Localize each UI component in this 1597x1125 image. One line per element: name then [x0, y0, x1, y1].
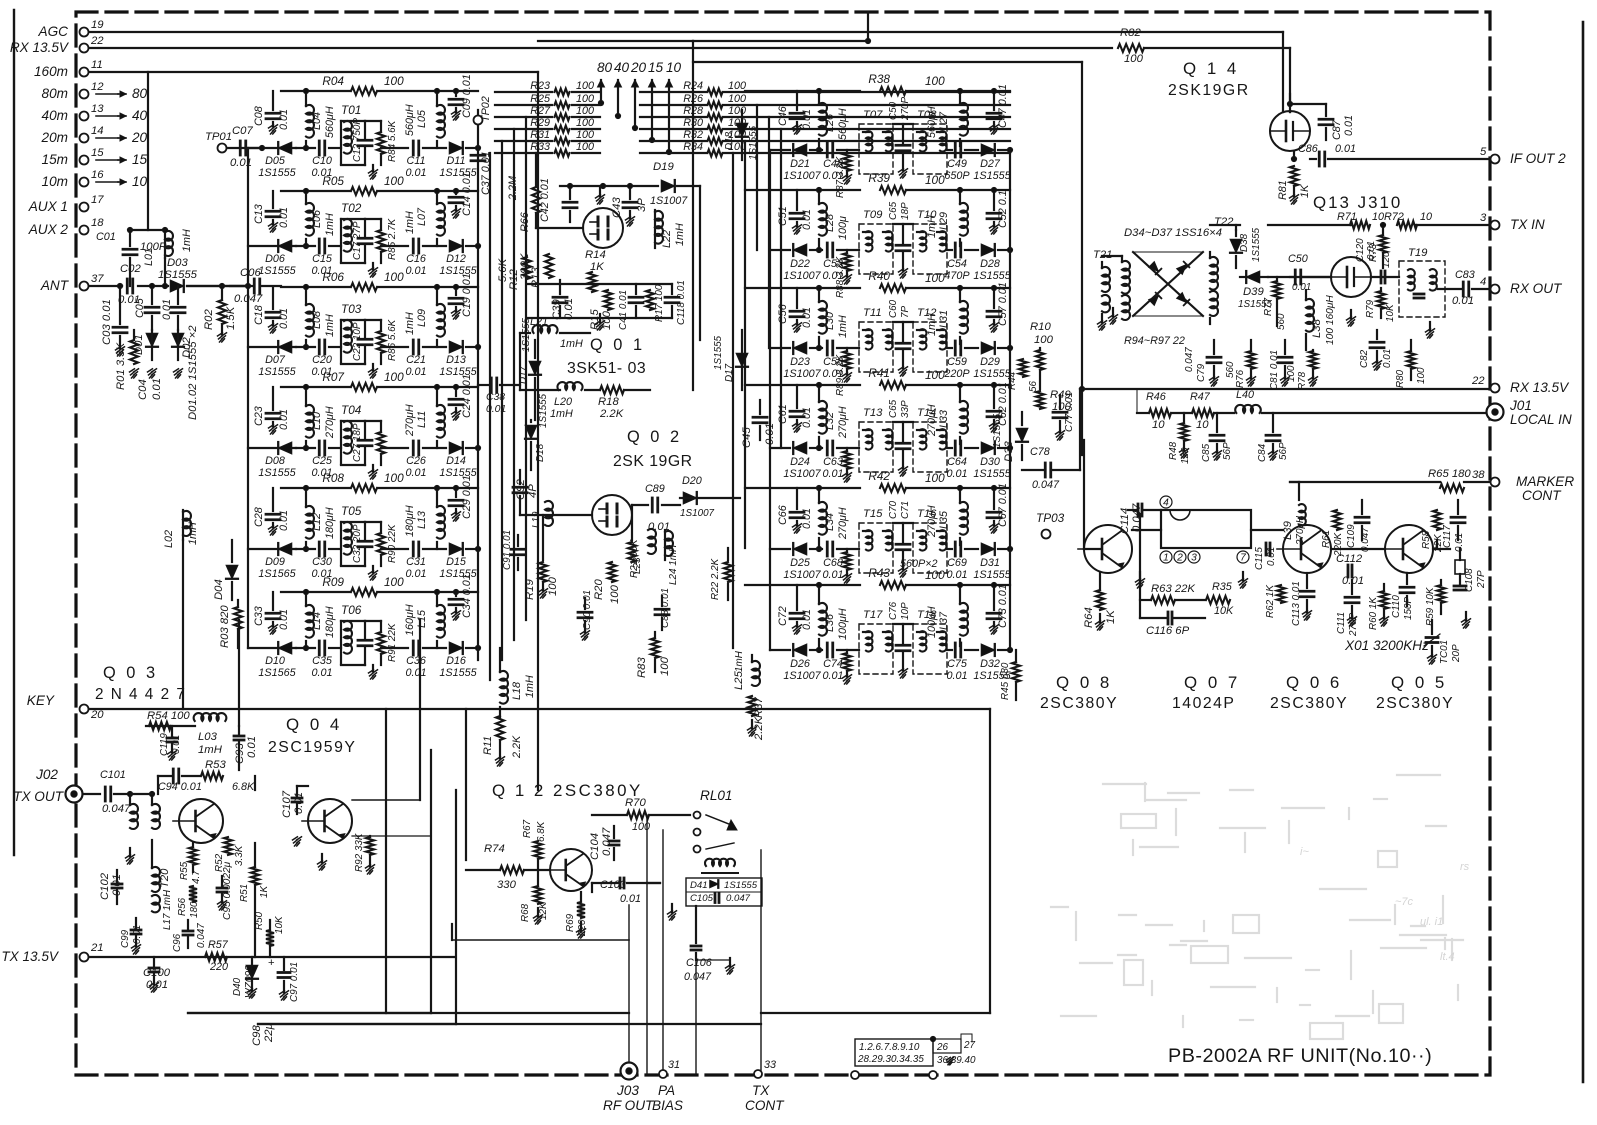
svg-text:D09: D09: [265, 556, 285, 568]
svg-text:4: 4: [1163, 498, 1169, 509]
svg-text:1S1555: 1S1555: [748, 125, 759, 160]
svg-text:C57 0.01: C57 0.01: [997, 282, 1009, 326]
svg-text:C77 0.01: C77 0.01: [1064, 392, 1075, 432]
svg-text:D16: D16: [446, 655, 466, 667]
svg-text:C114: C114: [1119, 508, 1131, 534]
svg-text:R83: R83: [636, 657, 648, 678]
svg-text:100 160μH: 100 160μH: [1325, 295, 1336, 345]
svg-text:C08: C08: [253, 106, 265, 126]
svg-text:180μH: 180μH: [324, 606, 336, 638]
svg-text:1mH: 1mH: [198, 744, 223, 756]
svg-text:C20: C20: [312, 354, 332, 366]
svg-text:R63 22K: R63 22K: [1151, 583, 1195, 595]
svg-text:rs: rs: [1460, 861, 1470, 873]
svg-text:D24: D24: [790, 456, 810, 468]
svg-text:C94 0.01: C94 0.01: [158, 781, 202, 793]
svg-text:C81 0.01: C81 0.01: [1269, 350, 1280, 390]
svg-text:R79: R79: [1365, 299, 1376, 318]
svg-text:0.01: 0.01: [486, 404, 506, 415]
svg-text:21: 21: [90, 942, 104, 954]
svg-text:1S1007: 1S1007: [783, 569, 821, 581]
svg-text:1S1555: 1S1555: [521, 317, 532, 352]
svg-text:TC01: TC01: [1439, 640, 1450, 664]
svg-text:R68: R68: [520, 903, 531, 922]
svg-text:R74: R74: [484, 843, 505, 855]
svg-text:100: 100: [925, 74, 945, 88]
svg-text:120: 120: [1381, 251, 1392, 268]
svg-text:0.01: 0.01: [822, 569, 843, 581]
svg-text:D12: D12: [446, 253, 466, 265]
svg-text:Q 0 8: Q 0 8: [1056, 673, 1112, 692]
svg-text:R08: R08: [322, 471, 344, 485]
svg-text:D20: D20: [682, 475, 702, 487]
svg-text:10K: 10K: [1214, 605, 1234, 617]
svg-text:C01: C01: [96, 231, 116, 243]
svg-text:C108: C108: [1464, 568, 1475, 592]
svg-text:R94~R97 22: R94~R97 22: [1124, 335, 1185, 347]
svg-text:AUX 2: AUX 2: [28, 222, 69, 237]
svg-text:0.01: 0.01: [1266, 547, 1277, 566]
svg-text:R86 5.6K: R86 5.6K: [387, 319, 398, 361]
svg-text:33: 33: [764, 1059, 776, 1071]
svg-text:L09: L09: [416, 309, 428, 327]
svg-text:C61: C61: [777, 404, 789, 424]
svg-text:Q 0 5: Q 0 5: [1391, 673, 1447, 692]
svg-text:R40: R40: [868, 269, 890, 283]
svg-text:T22: T22: [1214, 216, 1234, 228]
svg-text:R76: R76: [1235, 369, 1246, 388]
svg-text:100: 100: [384, 471, 404, 485]
svg-text:R82: R82: [1120, 27, 1141, 39]
svg-text:C116 6P: C116 6P: [1146, 625, 1190, 637]
svg-text:180: 180: [189, 901, 200, 918]
svg-text:R66: R66: [519, 212, 531, 232]
svg-text:1S1007: 1S1007: [783, 468, 821, 480]
svg-text:0.01: 0.01: [1292, 282, 1311, 293]
svg-text:T11: T11: [863, 307, 882, 319]
svg-text:0.01: 0.01: [801, 508, 813, 529]
svg-text:1S1555: 1S1555: [973, 468, 1011, 480]
svg-text:C34 0.01: C34 0.01: [461, 574, 473, 618]
svg-text:180μH: 180μH: [324, 507, 336, 539]
svg-text:100: 100: [576, 117, 594, 129]
svg-text:0.01: 0.01: [278, 409, 290, 430]
svg-text:0.01: 0.01: [278, 609, 290, 630]
svg-text:R85 2.7K: R85 2.7K: [387, 218, 398, 260]
svg-text:C120: C120: [1355, 238, 1366, 262]
svg-text:C84: C84: [1257, 443, 1268, 462]
svg-text:R27: R27: [530, 105, 551, 117]
svg-text:2SC380Y: 2SC380Y: [1270, 695, 1348, 712]
svg-text:C33: C33: [253, 606, 265, 626]
svg-text:RL01: RL01: [700, 788, 733, 803]
svg-text:RX OUT: RX OUT: [1510, 281, 1563, 296]
svg-text:1S1007: 1S1007: [680, 508, 715, 519]
svg-text:0.01: 0.01: [230, 157, 252, 169]
svg-text:0.01: 0.01: [405, 667, 426, 679]
svg-text:C35: C35: [312, 655, 333, 667]
svg-text:2SC380Y: 2SC380Y: [1376, 695, 1454, 712]
svg-text:C43: C43: [611, 197, 623, 218]
svg-text:6.8K: 6.8K: [536, 821, 547, 842]
svg-text:1mH: 1mH: [324, 314, 336, 337]
svg-text:D15: D15: [446, 556, 467, 568]
svg-text:L37: L37: [938, 611, 950, 630]
svg-text:C66: C66: [777, 505, 789, 525]
svg-text:T19: T19: [1408, 247, 1428, 259]
svg-text:C75: C75: [947, 658, 968, 670]
svg-text:R10: R10: [1030, 321, 1051, 333]
svg-text:2 N 4 4 2 7: 2 N 4 4 2 7: [95, 686, 186, 703]
svg-text:560P×2: 560P×2: [900, 558, 938, 570]
svg-text:R20: R20: [593, 579, 605, 600]
svg-text:D11: D11: [446, 155, 465, 167]
svg-text:D29: D29: [980, 356, 1000, 368]
svg-text:100: 100: [609, 584, 621, 604]
svg-text:R04: R04: [322, 74, 344, 88]
svg-text:R91 22K: R91 22K: [387, 623, 398, 662]
svg-text:4P: 4P: [527, 484, 539, 498]
svg-text:R59 10K: R59 10K: [1425, 587, 1436, 626]
svg-text:C64: C64: [947, 456, 967, 468]
svg-text:1S1555: 1S1555: [973, 270, 1011, 282]
svg-text:Q 0 6: Q 0 6: [1286, 673, 1342, 692]
svg-text:L13: L13: [416, 511, 428, 529]
svg-text:2SK 19GR: 2SK 19GR: [613, 453, 693, 470]
svg-text:D18: D18: [535, 443, 546, 462]
svg-text:T20: T20: [159, 868, 171, 888]
svg-text:C12 750P: C12 750P: [352, 118, 363, 162]
svg-text:1mH: 1mH: [837, 315, 849, 338]
svg-text:100: 100: [1416, 367, 1427, 384]
svg-text:ANT: ANT: [40, 278, 70, 293]
svg-text:0.047: 0.047: [102, 803, 131, 815]
svg-text:CONT: CONT: [1522, 488, 1562, 503]
svg-text:AGC: AGC: [38, 24, 69, 39]
svg-text:R72: R72: [1384, 211, 1404, 223]
svg-text:27P: 27P: [1476, 570, 1487, 589]
svg-text:WZ090: WZ090: [244, 965, 255, 998]
svg-text:R51: R51: [239, 884, 250, 902]
svg-text:C97 0.01: C97 0.01: [289, 962, 300, 1002]
svg-text:T13: T13: [863, 407, 883, 419]
svg-text:11: 11: [91, 59, 103, 71]
svg-text:L15: L15: [416, 609, 428, 628]
svg-text:C50: C50: [1288, 253, 1308, 265]
svg-text:100: 100: [576, 141, 594, 153]
svg-text:1: 1: [1163, 553, 1169, 564]
svg-text:R90 22K: R90 22K: [387, 524, 398, 563]
svg-text:3: 3: [1480, 212, 1487, 224]
svg-text:10: 10: [666, 60, 682, 75]
svg-text:650P: 650P: [944, 170, 970, 182]
svg-text:C103: C103: [600, 879, 626, 891]
svg-text:0.01: 0.01: [1382, 349, 1393, 368]
svg-text:C06: C06: [240, 267, 261, 279]
svg-text:1.5K: 1.5K: [225, 306, 237, 330]
svg-text:0.01: 0.01: [405, 568, 426, 580]
svg-text:X01 3200KHz: X01 3200KHz: [1344, 638, 1429, 653]
svg-text:20: 20: [90, 709, 104, 721]
svg-text:D07: D07: [265, 354, 286, 366]
svg-text:R45 680: R45 680: [1000, 662, 1011, 700]
svg-text:C13: C13: [253, 204, 265, 224]
svg-text:C110: C110: [1391, 595, 1402, 618]
svg-text:10K: 10K: [1385, 304, 1396, 322]
svg-text:560: 560: [1225, 361, 1236, 378]
svg-text:0.01: 0.01: [161, 299, 173, 320]
svg-text:C59: C59: [947, 356, 967, 368]
svg-text:100μH: 100μH: [926, 606, 938, 638]
svg-text:1mH: 1mH: [187, 522, 199, 545]
svg-text:1mH: 1mH: [734, 650, 745, 672]
svg-text:R48: R48: [1168, 441, 1179, 460]
svg-text:R67: R67: [522, 819, 533, 838]
svg-text:1K: 1K: [1299, 184, 1311, 198]
svg-text:100: 100: [576, 80, 594, 92]
svg-text:C24 0.01: C24 0.01: [461, 374, 473, 418]
svg-text:C67 0.01: C67 0.01: [997, 483, 1009, 527]
svg-text:160μH: 160μH: [404, 604, 416, 636]
svg-text:1S1555: 1S1555: [724, 880, 758, 891]
svg-text:80m: 80m: [42, 86, 68, 101]
svg-text:D30: D30: [980, 456, 1000, 468]
svg-text:R71: R71: [1337, 211, 1357, 223]
svg-text:2SC380Y: 2SC380Y: [1040, 695, 1118, 712]
svg-text:C17 27P: C17 27P: [352, 221, 363, 260]
svg-text:270μH: 270μH: [404, 404, 416, 437]
svg-text:2.2K: 2.2K: [599, 408, 624, 420]
svg-text:R57: R57: [208, 939, 229, 951]
svg-text:1S1565: 1S1565: [258, 667, 296, 679]
svg-text:0.01: 0.01: [1335, 143, 1356, 155]
svg-text:L25: L25: [733, 670, 745, 690]
svg-text:17: 17: [91, 194, 104, 206]
svg-text:80: 80: [597, 60, 613, 75]
svg-text:L34: L34: [824, 513, 836, 531]
svg-text:100: 100: [925, 173, 945, 187]
svg-text:D32: D32: [980, 658, 1000, 670]
svg-text:1mH: 1mH: [560, 338, 583, 350]
svg-text:100: 100: [925, 368, 945, 382]
svg-text:L08: L08: [311, 311, 323, 329]
svg-text:C91 0.01: C91 0.01: [502, 530, 513, 570]
svg-text:C96: C96: [172, 933, 183, 952]
svg-text:100: 100: [547, 576, 559, 596]
svg-text:~7c: ~7c: [1395, 896, 1414, 908]
svg-text:560μH: 560μH: [324, 106, 336, 138]
svg-text:C109: C109: [1346, 524, 1357, 548]
svg-text:L36: L36: [824, 614, 836, 632]
svg-text:1S1555: 1S1555: [439, 667, 477, 679]
svg-text:270μH: 270μH: [926, 404, 938, 437]
svg-text:15m: 15m: [42, 152, 68, 167]
svg-text:R92 33K: R92 33K: [354, 833, 365, 872]
svg-text:0.01: 0.01: [1452, 295, 1474, 307]
svg-text:3.3K: 3.3K: [234, 845, 245, 866]
svg-text:D25: D25: [790, 557, 811, 569]
svg-text:100μ: 100μ: [837, 216, 849, 240]
svg-text:1mH: 1mH: [404, 211, 416, 234]
svg-text:R39: R39: [868, 171, 890, 185]
svg-text:L24 1mH: L24 1mH: [668, 544, 679, 585]
svg-text:C16: C16: [406, 253, 426, 265]
svg-text:L35: L35: [938, 510, 950, 529]
svg-text:R70: R70: [625, 797, 646, 809]
svg-text:120: 120: [1180, 447, 1191, 464]
svg-text:L04: L04: [311, 112, 323, 130]
svg-text:T01: T01: [341, 103, 361, 117]
svg-text:C07: C07: [232, 125, 253, 137]
svg-text:560μH: 560μH: [837, 108, 849, 140]
svg-text:C10: C10: [312, 155, 332, 167]
svg-text:D04: D04: [213, 579, 225, 600]
svg-text:R58: R58: [1421, 530, 1432, 549]
svg-text:C56: C56: [777, 304, 789, 324]
svg-text:R77: R77: [1263, 297, 1274, 316]
svg-text:220: 220: [209, 961, 228, 973]
svg-text:10: 10: [1196, 419, 1209, 431]
svg-text:3SK51- 03: 3SK51- 03: [567, 360, 646, 377]
svg-text:C04: C04: [137, 379, 149, 400]
svg-text:100: 100: [576, 129, 594, 141]
svg-text:C03 0.01: C03 0.01: [101, 299, 113, 345]
svg-text:R65 180: R65 180: [1428, 468, 1471, 480]
svg-text:0.047: 0.047: [234, 293, 263, 305]
svg-text:L30: L30: [824, 312, 836, 330]
svg-text:10K: 10K: [274, 916, 285, 934]
svg-text:C82: C82: [1359, 349, 1370, 368]
svg-text:0.01: 0.01: [801, 307, 813, 328]
svg-text:5.6K: 5.6K: [497, 258, 509, 282]
svg-text:18P: 18P: [900, 202, 911, 220]
svg-text:C72: C72: [777, 606, 789, 626]
svg-text:1S1555: 1S1555: [258, 167, 296, 179]
svg-text:56P: 56P: [1222, 442, 1233, 460]
svg-text:R56: R56: [177, 897, 188, 916]
svg-text:0.01: 0.01: [563, 298, 575, 320]
svg-text:C71: C71: [900, 501, 911, 519]
svg-text:TX: TX: [752, 1083, 770, 1098]
svg-text:C73 0.01: C73 0.01: [997, 584, 1009, 628]
svg-text:1S1007: 1S1007: [650, 195, 688, 207]
svg-text:100: 100: [925, 568, 945, 582]
svg-text:R84 5.6K: R84 5.6K: [387, 120, 398, 162]
svg-text:0.01: 0.01: [278, 109, 290, 130]
svg-text:D22: D22: [790, 258, 810, 270]
svg-text:0.047: 0.047: [1032, 479, 1060, 491]
svg-text:TX IN: TX IN: [1510, 217, 1545, 232]
svg-text:L12: L12: [311, 513, 323, 531]
svg-text:0.047: 0.047: [684, 971, 712, 983]
svg-text:R80: R80: [1395, 369, 1406, 388]
svg-text:14: 14: [91, 125, 104, 137]
svg-text:TP03: TP03: [1036, 511, 1065, 525]
svg-text:0.01: 0.01: [246, 736, 258, 758]
svg-text:C104: C104: [589, 833, 601, 860]
svg-text:2SK19GR: 2SK19GR: [1168, 82, 1250, 99]
svg-text:18: 18: [91, 217, 104, 229]
svg-text:0.01: 0.01: [278, 207, 290, 228]
svg-text:R33: R33: [530, 141, 550, 153]
svg-text:150P: 150P: [1403, 597, 1414, 620]
svg-text:RX 13.5V: RX 13.5V: [1510, 380, 1570, 395]
svg-text:D41: D41: [690, 880, 708, 891]
svg-text:L22: L22: [661, 230, 673, 248]
svg-text:R44: R44: [1007, 371, 1018, 390]
svg-text:D17: D17: [518, 365, 529, 384]
svg-text:L11: L11: [416, 411, 428, 428]
svg-text:C74: C74: [823, 658, 843, 670]
svg-text:10m: 10m: [42, 174, 68, 189]
svg-text:C26: C26: [406, 455, 426, 467]
svg-text:5: 5: [1480, 146, 1487, 158]
svg-text:L17 1mH: L17 1mH: [162, 889, 173, 930]
svg-text:C90 0.01: C90 0.01: [582, 590, 593, 630]
svg-text:R02: R02: [203, 309, 215, 330]
svg-text:10: 10: [132, 174, 148, 189]
svg-text:0.047: 0.047: [726, 893, 751, 904]
svg-text:D03: D03: [167, 257, 188, 269]
svg-text:L07: L07: [416, 207, 428, 226]
svg-text:L03: L03: [198, 731, 218, 743]
svg-text:7: 7: [1240, 553, 1246, 564]
svg-text:100: 100: [384, 370, 404, 384]
svg-text:J01: J01: [1509, 398, 1532, 413]
svg-text:R11: R11: [482, 736, 494, 755]
svg-text:C63: C63: [823, 456, 843, 468]
svg-text:0.01: 0.01: [764, 423, 776, 445]
svg-text:20m: 20m: [41, 130, 68, 145]
svg-text:TX 13.5V: TX 13.5V: [1, 949, 60, 964]
svg-text:C78: C78: [1030, 446, 1050, 458]
svg-text:D33: D33: [1003, 441, 1015, 462]
svg-text:0.01: 0.01: [1343, 115, 1355, 136]
svg-text:31: 31: [668, 1059, 680, 1071]
svg-text:100: 100: [576, 105, 594, 117]
svg-text:R23: R23: [530, 80, 550, 92]
svg-text:J02: J02: [35, 767, 58, 782]
svg-text:D10: D10: [265, 655, 285, 667]
svg-text:D14: D14: [446, 455, 466, 467]
svg-text:1S1555: 1S1555: [538, 393, 549, 428]
svg-text:1mH: 1mH: [674, 223, 686, 246]
svg-text:4: 4: [1480, 276, 1486, 288]
svg-text:C18: C18: [253, 305, 265, 325]
svg-text:100: 100: [728, 105, 746, 117]
svg-text:C117: C117: [1442, 525, 1453, 548]
svg-text:100: 100: [576, 93, 594, 105]
svg-text:R37: R37: [753, 697, 765, 718]
svg-text:L26: L26: [824, 114, 836, 132]
svg-text:3: 3: [1191, 553, 1197, 564]
svg-text:12: 12: [91, 81, 104, 93]
svg-text:0.01: 0.01: [405, 167, 426, 179]
svg-text:100: 100: [384, 74, 404, 88]
svg-text:0.01: 0.01: [620, 893, 641, 905]
svg-text:T03: T03: [341, 302, 362, 316]
svg-text:13: 13: [91, 103, 104, 115]
svg-text:560μH: 560μH: [926, 106, 938, 138]
svg-text:L28: L28: [824, 214, 836, 232]
svg-text:Q 0 2: Q 0 2: [627, 428, 682, 446]
svg-text:C119: C119: [159, 733, 170, 756]
svg-text:C42 0.01: C42 0.01: [539, 178, 551, 222]
svg-text:C32 20P: C32 20P: [352, 524, 363, 563]
svg-text:0.01: 0.01: [822, 670, 843, 682]
svg-text:270P: 270P: [1348, 613, 1359, 637]
svg-text:56P: 56P: [1278, 442, 1289, 460]
